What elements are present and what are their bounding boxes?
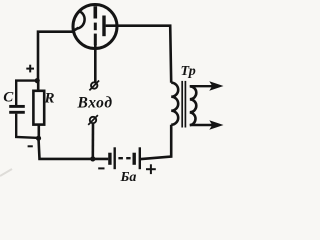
wire: anode lead to top-right corner and down: [106, 26, 172, 83]
tube anode bar: [102, 16, 105, 37]
tube grid dashed line: [94, 6, 98, 45]
tube envelope U1: [73, 5, 117, 49]
input terminal 1: [91, 82, 97, 88]
dashed link between cells: [118, 157, 130, 159]
battery B cell1 long plate: [113, 147, 115, 169]
svg-text:Ба: Ба: [120, 170, 137, 185]
battery B cell1 short plate: [108, 153, 111, 165]
minus sign battery: [98, 167, 104, 169]
transformer core: [181, 81, 183, 128]
wire: battery plus to bottom-right corner and up: [141, 125, 171, 159]
node junction lower-left: [36, 136, 41, 141]
wire: resistor bottom to lower junction: [37, 125, 40, 138]
resistor R1: [33, 91, 44, 125]
plus sign battery: [146, 164, 156, 174]
wire: grid lead down to input: [94, 44, 97, 82]
output lead bottom with arrow: [190, 124, 213, 126]
wire: capacitor bottom to lower junction: [16, 114, 38, 138]
svg-text:Вход: Вход: [77, 95, 113, 112]
node junction top-left: [35, 78, 40, 83]
svg-text:C: C: [3, 90, 14, 106]
wire: junction to capacitor branch: [16, 81, 37, 105]
scan smudge bottom-left: [0, 169, 12, 176]
plus sign top-left: [26, 65, 34, 73]
battery B cell2 short plate: [132, 153, 135, 165]
wire: input terminal 2 down to bottom rail: [92, 124, 95, 159]
wire: cathode lead to left branch corner: [38, 28, 79, 81]
wire: junction down into resistor: [37, 81, 40, 91]
tube cathode arc: [78, 11, 85, 28]
svg-text:Тр: Тр: [181, 64, 196, 79]
wire: lower junction to bottom rail: [39, 138, 109, 159]
transformer Tr secondary winding: [190, 86, 197, 125]
battery B cell2 long plate: [139, 147, 141, 169]
minus sign left: [28, 145, 33, 147]
output lead top with arrow: [190, 85, 213, 87]
capacitor C1 plates: [9, 105, 25, 108]
transformer Tr primary winding: [171, 83, 178, 125]
node junction on bottom rail: [90, 156, 95, 161]
input terminal 2: [90, 117, 96, 123]
svg-text:R: R: [44, 90, 55, 106]
